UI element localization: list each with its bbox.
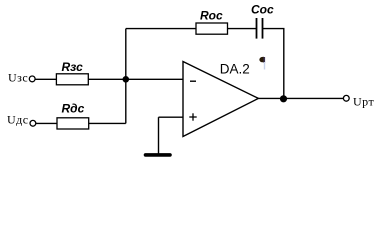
svg-text:DA.2: DA.2 — [220, 62, 250, 77]
wire: non-inverting input to ground branch — [159, 116, 184, 118]
svg-text:Roc: Roc — [200, 8, 223, 22]
svg-text:Uрт: Uрт — [353, 95, 375, 109]
wire: Coc right plate to right corner and down to output node — [263, 29, 284, 99]
svg-text:Uзс: Uзс — [8, 70, 28, 84]
op-amp DA.2 — [183, 62, 258, 137]
wire: summing node vertical (feedback down to Rдс row) — [125, 29, 127, 124]
svg-text:Rдс: Rдс — [62, 102, 85, 116]
wire: feedback top horizontal (junction to Roc) — [126, 28, 196, 30]
wire: Roc to Coc left plate — [228, 28, 257, 30]
node: output feedback junction dot — [280, 95, 287, 102]
wire: Rзс to op-amp inverting input (through summing node) — [88, 78, 183, 80]
capacitor Coc — [257, 18, 263, 39]
terminal Uрт — [343, 95, 349, 101]
resistor Rзс — [56, 74, 88, 85]
pilcrow paragraph mark artifact — [259, 57, 264, 70]
wire: Rдс to summing-node vertical — [89, 122, 126, 124]
wire: Uзс terminal to Rзс — [35, 78, 56, 80]
resistor Rдс — [57, 118, 89, 129]
op-amp inverting input minus sign — [190, 80, 196, 82]
resistor Roc — [196, 23, 228, 34]
svg-text:Uдс: Uдс — [7, 113, 29, 127]
wire: op-amp output to Uрт terminal — [258, 97, 343, 99]
terminal Uзс — [29, 76, 35, 82]
svg-text:Coc: Coc — [251, 3, 274, 17]
terminal Uдс — [30, 120, 36, 126]
op-amp non-inverting input plus sign — [189, 113, 196, 120]
ground — [146, 153, 171, 157]
svg-text:Rзс: Rзс — [62, 60, 84, 74]
wire: ground branch vertical — [158, 117, 160, 153]
node: summing junction dot — [123, 76, 130, 83]
wire: Uдс terminal to Rдс — [36, 122, 57, 124]
